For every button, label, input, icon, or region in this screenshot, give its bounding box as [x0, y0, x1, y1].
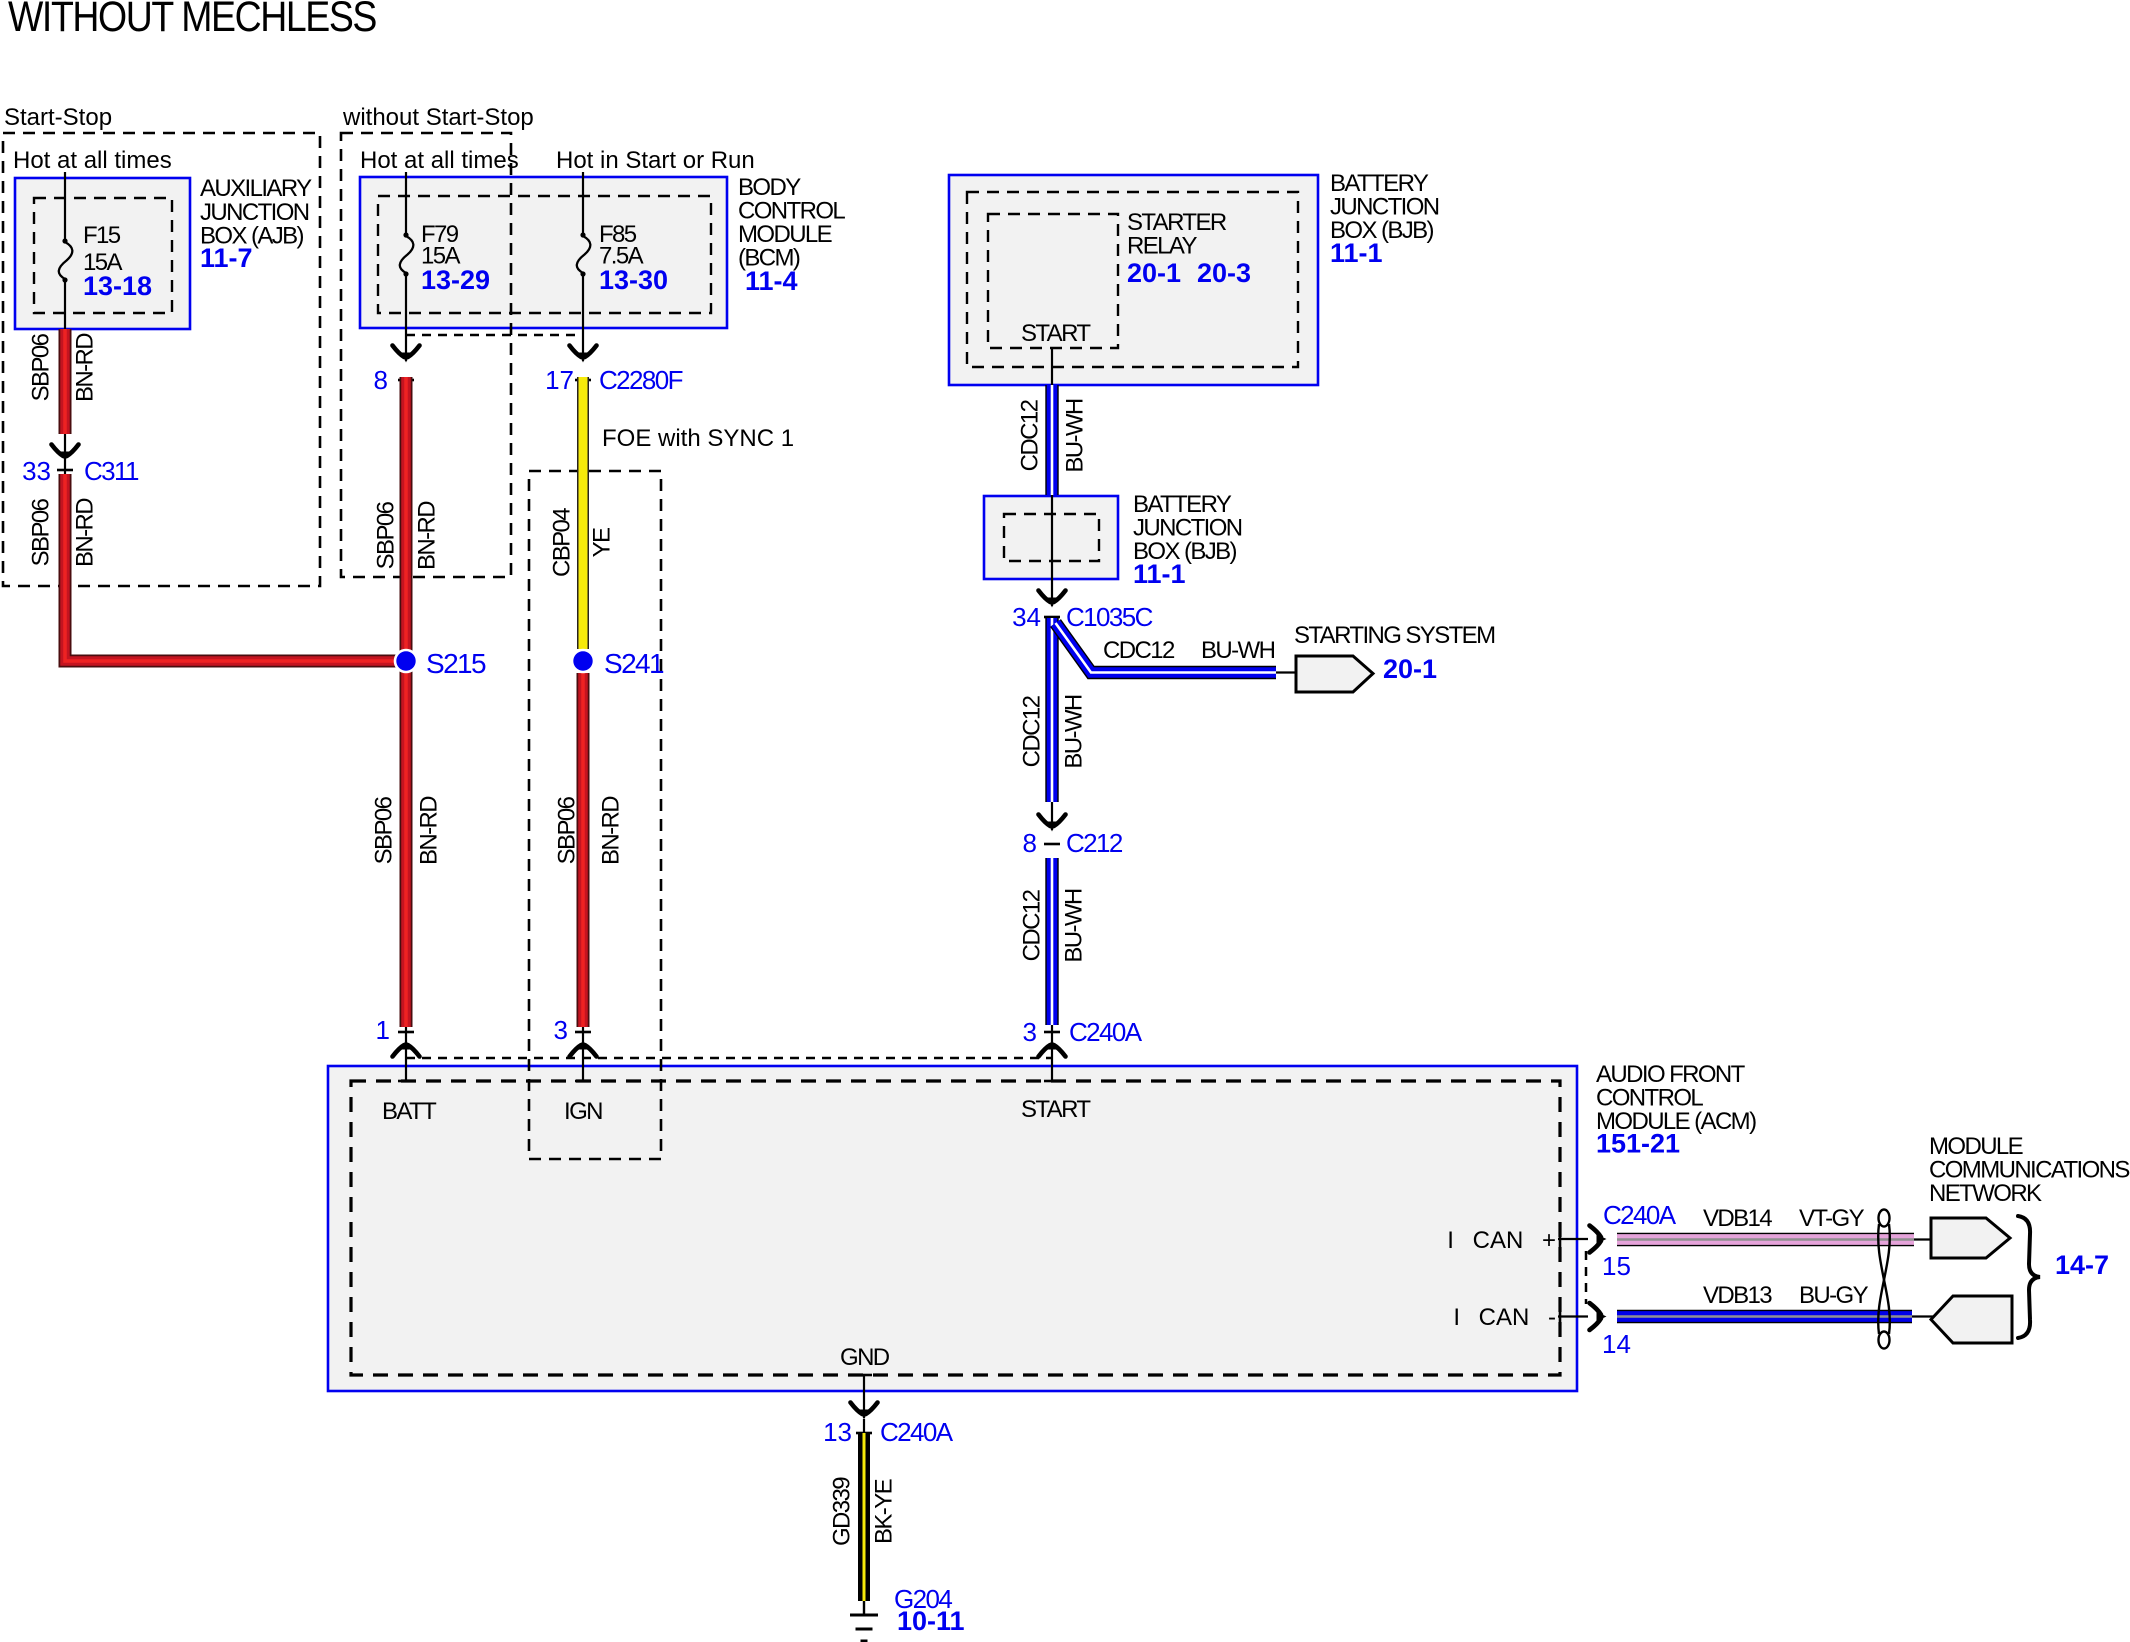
- svg-text:CDC12: CDC12: [1019, 889, 1046, 961]
- svg-text:33: 33: [22, 456, 51, 486]
- svg-text:BN-RD: BN-RD: [416, 796, 443, 865]
- svg-text:IGN: IGN: [564, 1098, 602, 1125]
- svg-text:SBP06: SBP06: [554, 796, 581, 864]
- svg-text:FOE with SYNC 1: FOE with SYNC 1: [602, 425, 794, 452]
- svg-text:YE: YE: [589, 528, 616, 557]
- svg-text:Hot at all times: Hot at all times: [360, 147, 519, 174]
- svg-text:BU-WH: BU-WH: [1201, 637, 1275, 664]
- svg-text:WITHOUT MECHLESS: WITHOUT MECHLESS: [8, 0, 376, 41]
- svg-text:15: 15: [1602, 1251, 1631, 1281]
- svg-text:S241: S241: [604, 648, 664, 679]
- svg-text:C240A: C240A: [880, 1417, 954, 1447]
- svg-text:20-1: 20-1: [1127, 258, 1181, 288]
- svg-text:SBP06: SBP06: [371, 796, 398, 864]
- svg-text:GD339: GD339: [829, 1477, 856, 1546]
- svg-text:SBP06: SBP06: [28, 498, 55, 566]
- svg-text:BU-WH: BU-WH: [1061, 695, 1088, 769]
- svg-text:VT-GY: VT-GY: [1799, 1205, 1865, 1232]
- svg-text:START: START: [1021, 1096, 1091, 1123]
- svg-text:BN-RD: BN-RD: [72, 498, 99, 567]
- svg-text:SBP06: SBP06: [28, 333, 55, 401]
- svg-text:C311: C311: [84, 456, 139, 486]
- svg-text:1: 1: [376, 1015, 390, 1045]
- svg-text:14-7: 14-7: [2055, 1250, 2109, 1280]
- svg-text:C240A: C240A: [1603, 1200, 1677, 1230]
- svg-text:STARTING SYSTEM: STARTING SYSTEM: [1294, 622, 1495, 649]
- svg-text:F15: F15: [83, 222, 121, 249]
- svg-text:13-18: 13-18: [83, 271, 152, 301]
- svg-text:11-1: 11-1: [1330, 238, 1383, 268]
- svg-text:BN-RD: BN-RD: [72, 333, 99, 402]
- svg-text:13-29: 13-29: [421, 265, 490, 295]
- svg-text:BK-YE: BK-YE: [871, 1479, 898, 1544]
- svg-text:14: 14: [1602, 1329, 1631, 1359]
- svg-text:BN-RD: BN-RD: [414, 501, 441, 570]
- svg-text:13: 13: [823, 1417, 852, 1447]
- svg-text:10-11: 10-11: [897, 1606, 965, 1636]
- svg-text:I CAN -: I CAN -: [1453, 1304, 1556, 1331]
- svg-text:3: 3: [1023, 1017, 1037, 1047]
- svg-text:11-1: 11-1: [1133, 559, 1186, 589]
- svg-text:20-3: 20-3: [1197, 258, 1251, 288]
- svg-text:151-21: 151-21: [1596, 1129, 1680, 1159]
- svg-text:AUXILIARY: AUXILIARY: [200, 175, 312, 202]
- svg-text:CDC12: CDC12: [1103, 637, 1175, 664]
- svg-text:I CAN +: I CAN +: [1447, 1227, 1556, 1254]
- svg-text:GND: GND: [840, 1344, 890, 1371]
- svg-text:8: 8: [374, 365, 388, 395]
- svg-text:34: 34: [1012, 602, 1041, 632]
- svg-text:8: 8: [1023, 828, 1037, 858]
- svg-text:RELAY: RELAY: [1127, 233, 1198, 260]
- svg-text:20-1: 20-1: [1383, 654, 1437, 684]
- svg-text:11-4: 11-4: [745, 266, 798, 296]
- svg-text:VDB14: VDB14: [1703, 1205, 1772, 1232]
- svg-text:without Start-Stop: without Start-Stop: [342, 104, 534, 131]
- svg-text:BU-GY: BU-GY: [1799, 1282, 1869, 1309]
- svg-text:CBP04: CBP04: [549, 508, 576, 577]
- svg-text:C240A: C240A: [1069, 1017, 1143, 1047]
- svg-text:13-30: 13-30: [599, 265, 668, 295]
- svg-text:START: START: [1021, 320, 1091, 347]
- svg-text:C212: C212: [1066, 828, 1123, 858]
- svg-text:17: 17: [545, 365, 574, 395]
- svg-text:Start-Stop: Start-Stop: [4, 104, 112, 131]
- svg-text:CDC12: CDC12: [1019, 695, 1046, 767]
- svg-text:Hot at all times: Hot at all times: [13, 147, 172, 174]
- svg-text:S215: S215: [426, 648, 486, 679]
- svg-text:VDB13: VDB13: [1703, 1282, 1772, 1309]
- svg-text:BU-WH: BU-WH: [1061, 889, 1088, 963]
- svg-text:C2280F: C2280F: [599, 365, 683, 395]
- svg-text:Hot in Start or Run: Hot in Start or Run: [556, 147, 755, 174]
- svg-text:BATT: BATT: [382, 1098, 437, 1125]
- svg-text:BN-RD: BN-RD: [598, 796, 625, 865]
- svg-text:11-7: 11-7: [200, 243, 253, 273]
- svg-text:BU-WH: BU-WH: [1062, 399, 1089, 473]
- svg-text:C1035C: C1035C: [1066, 602, 1153, 632]
- svg-text:SBP06: SBP06: [373, 501, 400, 569]
- svg-text:CDC12: CDC12: [1017, 399, 1044, 471]
- svg-text:3: 3: [554, 1015, 568, 1045]
- svg-text:NETWORK: NETWORK: [1929, 1180, 2042, 1207]
